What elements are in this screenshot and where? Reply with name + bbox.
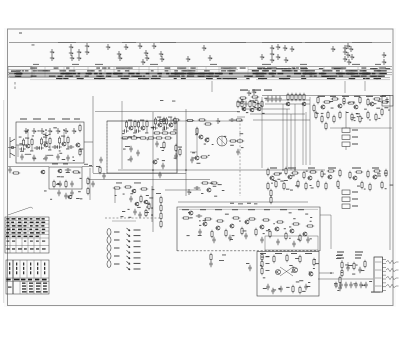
label text (263, 276, 266, 279)
table T2 row line (6, 277, 49, 279)
label band text (246, 78, 249, 79)
label band text (100, 76, 104, 77)
label band text (284, 68, 291, 69)
label text (187, 234, 190, 237)
label band text (143, 76, 146, 77)
label band text (77, 78, 83, 79)
trimmer P53 (187, 189, 191, 195)
label text (299, 279, 303, 282)
table T1 cell text (30, 225, 33, 227)
wire cross-coupling (280, 267, 293, 276)
transistor Q9 (140, 126, 145, 130)
table T1 row line (5, 227, 49, 229)
label text (79, 172, 81, 175)
label text (310, 220, 312, 223)
table T2 vertical text (9, 263, 10, 266)
label text (123, 137, 127, 140)
capacitor C21 (134, 129, 140, 132)
label text (279, 172, 282, 175)
resistor R108 (232, 217, 240, 219)
trimmer P36 (349, 46, 353, 52)
capacitor C20 (122, 129, 128, 132)
resistor R80 (321, 170, 323, 178)
wire inside transformer (219, 138, 225, 144)
trimmer P23 (208, 55, 212, 61)
label legend 1 (134, 230, 141, 231)
trimmer P44 (24, 128, 28, 134)
resistor R119 (285, 232, 287, 240)
capacitor C24 (129, 156, 132, 162)
label for transistor Q2 (43, 136, 47, 139)
legend arrow 8 (127, 267, 131, 270)
label band text (206, 78, 213, 79)
label band text (373, 68, 378, 69)
label text (260, 264, 262, 267)
connector internal contact (375, 277, 382, 279)
resistor R3 (40, 137, 42, 145)
table T1 cell text (12, 229, 15, 231)
table separator (73, 67, 75, 72)
trimmer P28 (290, 46, 294, 52)
resistor R109 (248, 218, 256, 220)
label band text (258, 68, 262, 69)
label band text (181, 70, 186, 71)
label band text (209, 73, 214, 74)
label band text (309, 73, 316, 74)
label text (310, 216, 312, 219)
label text (284, 179, 288, 182)
trimmer P25 (270, 45, 274, 51)
label band text (69, 70, 76, 71)
wire band rule 6a (30, 79, 250, 81)
transistor Q22 (337, 104, 342, 108)
table T1 cell text (24, 241, 26, 242)
table separator (341, 67, 343, 72)
resistor R98 (204, 123, 212, 125)
label band text (81, 78, 84, 79)
resistor R95 (337, 180, 339, 188)
wire (63, 137, 65, 142)
table T1 cell text (24, 222, 27, 224)
label legend 5 (134, 252, 141, 253)
label text (384, 172, 388, 175)
label band text (182, 68, 185, 69)
capacitor C46 (228, 235, 231, 241)
transistor Q13 (131, 189, 136, 193)
label band text (102, 68, 107, 69)
resistor R16 (134, 120, 136, 128)
resistor R172 (353, 262, 355, 270)
label tube V1 (114, 232, 120, 233)
label text (364, 188, 366, 191)
capacitor C100 (334, 282, 337, 288)
wire (84, 141, 93, 143)
label band text (166, 73, 169, 74)
tuner block box (16, 122, 84, 163)
wire band rule 5 (10, 76, 390, 78)
voltage table T1 (5, 217, 49, 253)
label text (232, 234, 235, 237)
table T1 cell text (18, 218, 21, 220)
wire (165, 189, 201, 191)
label text (356, 112, 358, 115)
resistor R200 (270, 189, 272, 197)
coil data table T2 (6, 260, 49, 294)
label text (128, 216, 131, 219)
resistor R42 (237, 100, 239, 108)
label band text (379, 68, 386, 69)
label band text (174, 78, 177, 79)
wire drop (294, 104, 296, 170)
label band text (227, 78, 234, 79)
label flip-flop (260, 252, 266, 255)
label text (286, 286, 289, 289)
table T1 cell text (36, 232, 40, 234)
label text (230, 144, 234, 147)
resistor R44 (249, 100, 251, 108)
table separator (138, 67, 140, 72)
resistor R51 (295, 93, 297, 101)
label text (241, 99, 243, 102)
label text (369, 280, 372, 283)
table T1 cell text (29, 229, 32, 231)
node junction (330, 272, 332, 274)
label band text (351, 76, 358, 77)
transistor Q25 (269, 176, 274, 180)
label band text (300, 68, 307, 69)
table T1 cell text (24, 218, 27, 220)
resistor R29 (169, 132, 177, 134)
wire (345, 146, 347, 150)
label text (361, 117, 363, 120)
label band text (91, 70, 94, 71)
label band text (294, 70, 298, 71)
label band text (146, 73, 150, 74)
label text (73, 159, 75, 162)
resistor R63 (313, 104, 315, 112)
trimmer P16 (145, 55, 149, 61)
table T1 cell text (36, 236, 39, 238)
label band text (121, 78, 128, 79)
resistor R10 (72, 171, 80, 173)
table T2 cell text (29, 291, 34, 292)
label band text (310, 76, 313, 77)
transistor Q2 (43, 143, 48, 147)
resistor R129 (313, 258, 315, 266)
pointer line to table (8, 207, 33, 215)
resistor R101 (160, 196, 162, 204)
capacitor C101 (339, 282, 342, 288)
capacitor C43 (196, 214, 202, 217)
table T1 row line (5, 245, 49, 247)
label band text (17, 76, 21, 77)
label legend 3 (134, 241, 141, 242)
label filter F2 (352, 137, 358, 138)
table T2 header text (35, 279, 39, 281)
transistor Q43 (308, 272, 313, 276)
resistor R83 (349, 171, 351, 179)
wire stub (14, 87, 16, 90)
label text (197, 162, 201, 165)
label band text (250, 76, 253, 77)
trimmer P9 (85, 49, 89, 55)
label text (388, 109, 390, 112)
label text (151, 126, 155, 129)
table T1 cell text (42, 248, 46, 249)
label band text (350, 73, 354, 74)
trimmer P11 (117, 51, 121, 57)
table T1 cell text (42, 229, 45, 231)
label block F (328, 168, 336, 169)
resistor R77 (291, 172, 299, 174)
label text (353, 282, 357, 285)
table T2 cell text (43, 291, 48, 292)
label filter F5 (352, 199, 358, 200)
label text (250, 99, 254, 102)
capacitor C13 (65, 168, 71, 171)
label above decoder (264, 90, 272, 91)
capacitor C30 (102, 173, 105, 179)
label band text (70, 76, 73, 77)
label band text (305, 73, 309, 74)
label band text (123, 78, 129, 79)
label text (199, 219, 201, 222)
label text (273, 222, 275, 225)
label text (195, 133, 198, 136)
label band text (373, 76, 376, 77)
label band text (345, 73, 348, 74)
value label (162, 129, 165, 132)
trimmer P2 (50, 55, 54, 61)
table T1 cell text (36, 241, 39, 242)
wire drop (261, 97, 263, 168)
resistor R131 (339, 276, 341, 284)
label band text (288, 70, 291, 71)
label band text (231, 70, 236, 71)
label text (323, 173, 326, 176)
table T2 vertical text (23, 271, 24, 274)
label band text (16, 73, 21, 74)
label band text (286, 70, 290, 71)
table T1 cell text (24, 229, 27, 231)
label text (162, 149, 164, 152)
label block F (352, 168, 361, 169)
resistor R62 (381, 101, 389, 103)
resistor R49 (287, 93, 289, 101)
table T1 cell text (6, 232, 9, 234)
label band text (208, 78, 213, 79)
transistor Q4 (75, 143, 80, 147)
label text (203, 219, 206, 222)
node junction (152, 169, 154, 171)
wire (196, 127, 198, 146)
trimmer P37 (343, 49, 347, 55)
ceramic filter F6 (342, 204, 350, 208)
label connector block (355, 258, 361, 259)
wire drop (282, 104, 284, 170)
label band text (174, 70, 178, 71)
resistor R73 (381, 108, 383, 116)
label text (206, 137, 209, 140)
label band text (359, 73, 364, 74)
transistor Q27 (307, 176, 312, 180)
label block F (288, 168, 296, 169)
label band text (76, 76, 80, 77)
wire (63, 132, 65, 138)
label text (289, 226, 291, 229)
resistor R125 (273, 255, 275, 263)
transistor Q18 (256, 107, 261, 111)
label text (271, 182, 273, 185)
label band text (198, 76, 201, 77)
table T2 header text (21, 279, 26, 281)
table T2 vertical text (9, 271, 10, 274)
wire drop (305, 112, 307, 165)
label text (347, 266, 349, 269)
label band text (322, 76, 327, 77)
label band text (20, 73, 23, 74)
label band text (380, 70, 387, 71)
transistor Q1 (25, 144, 30, 148)
capacitor C56 (271, 288, 274, 294)
label text (297, 238, 300, 241)
label audio (298, 208, 304, 211)
table T1 cell text (30, 232, 34, 234)
trimmer P7 (77, 55, 81, 61)
wire drop (286, 109, 288, 170)
resistor R46 (261, 100, 263, 108)
table T2 vertical text (44, 271, 45, 274)
table T1 cell text (35, 229, 38, 231)
resistor R66 (327, 111, 329, 119)
resistor R171 (341, 269, 343, 277)
table separator (323, 67, 325, 72)
tube V1 (107, 229, 111, 236)
label filter F6 (352, 206, 358, 207)
transistor Q5 (40, 170, 44, 174)
legend arrow 1 (127, 228, 131, 231)
table T2 cell text (36, 291, 41, 292)
trimmer P50 (72, 128, 76, 134)
wire (45, 138, 47, 143)
label band text (96, 68, 100, 69)
wire fan (250, 113, 305, 115)
table T1 cell text (18, 232, 22, 234)
table T2 column line (33, 260, 35, 294)
label band text (229, 73, 233, 74)
label text (62, 158, 65, 161)
label band text (347, 73, 354, 74)
node junction (45, 129, 47, 131)
resistor R65 (321, 115, 323, 123)
wire (320, 214, 331, 216)
resistor R52 (299, 93, 301, 101)
table T1 cell text (24, 236, 28, 238)
label band text (44, 70, 47, 71)
label band text (287, 70, 292, 71)
label text (341, 271, 343, 274)
transistor Q41 (275, 270, 280, 275)
label text (123, 193, 125, 196)
label band text (346, 70, 353, 71)
label band text (223, 68, 230, 69)
trimmer P51 (247, 90, 251, 96)
label band text (159, 76, 162, 77)
label band text (59, 78, 62, 79)
table separator (205, 67, 207, 72)
resistor R98 (381, 181, 383, 189)
capacitor C27 (155, 141, 158, 147)
label band text (366, 78, 370, 79)
table T2 vertical text (23, 267, 24, 270)
label in left box (11, 71, 20, 72)
label text (44, 190, 47, 193)
transistor Q31 (206, 188, 211, 192)
label text (295, 184, 299, 187)
label (172, 100, 175, 103)
label text (377, 175, 381, 178)
fuse/lamp symbol 1 (386, 260, 399, 263)
label tick on top rule (160, 41, 176, 44)
label band text (63, 78, 65, 79)
label band text (256, 76, 262, 77)
label band text (60, 70, 67, 71)
wire (31, 147, 33, 151)
label band text (205, 76, 210, 77)
label text (256, 97, 258, 100)
table T1 cell text (6, 218, 9, 220)
resistor R5 (58, 136, 60, 144)
label band text (136, 76, 141, 77)
transistor Q12 (152, 160, 157, 164)
table T2 vertical text (44, 263, 45, 266)
label (246, 262, 249, 265)
wire band rule 4 (8, 74, 392, 76)
resistor R127 (299, 255, 301, 263)
label band text (177, 68, 182, 69)
label text (225, 213, 229, 216)
label AFC (63, 163, 68, 166)
resistor R105 (182, 217, 190, 219)
capacitor C16 (57, 190, 60, 196)
label legend 8 (134, 269, 141, 270)
label band text (287, 76, 291, 77)
wire band rule 3 (8, 71, 392, 73)
table T2 header text (14, 279, 20, 281)
label text (198, 234, 202, 237)
label text (329, 100, 333, 103)
table T2 cell text (36, 283, 41, 284)
label text (278, 287, 281, 290)
label text (72, 156, 74, 159)
capacitor C32 (129, 196, 132, 202)
table separator (104, 67, 106, 72)
capacitor C15 (70, 181, 73, 187)
label band text (322, 76, 329, 77)
label band text (187, 76, 194, 77)
label band text (271, 68, 277, 69)
capacitor C35 (244, 101, 247, 107)
resistor R114 (211, 230, 213, 238)
resistor R33 (175, 144, 177, 152)
label text (37, 130, 39, 133)
wire (27, 132, 29, 139)
label text (199, 224, 201, 227)
wire bus (88, 179, 210, 181)
wire fan (237, 116, 245, 118)
resistor R102 (160, 204, 162, 212)
label above band (262, 63, 271, 66)
